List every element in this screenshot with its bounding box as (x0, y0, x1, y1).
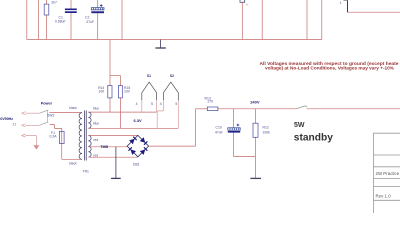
svg-text:5W: 5W (294, 122, 305, 129)
svg-text:Rev 1.0: Rev 1.0 (376, 193, 392, 198)
svg-text:47uF: 47uF (86, 20, 94, 24)
svg-text:voltage) at No-Load Conditions: voltage) at No-Load Conditions, Voltages… (265, 66, 394, 71)
svg-text:SW2: SW2 (47, 114, 54, 118)
svg-text:100k: 100k (263, 131, 271, 135)
svg-text:standby: standby (294, 133, 333, 144)
svg-text:Power: Power (41, 102, 53, 106)
svg-text:blue: blue (93, 107, 99, 111)
svg-text:4: 4 (136, 102, 138, 106)
svg-text:5: 5 (175, 102, 177, 106)
svg-text:5: 5 (151, 102, 153, 106)
svg-text:TR1: TR1 (83, 170, 90, 174)
svg-text:0.2A: 0.2A (50, 134, 58, 138)
svg-text:4: 4 (160, 102, 162, 106)
svg-text:100: 100 (99, 89, 105, 93)
svg-text:47uF: 47uF (215, 131, 223, 135)
svg-text:S2: S2 (170, 74, 174, 78)
svg-text:red: red (94, 154, 99, 158)
svg-text:C10: C10 (216, 125, 222, 129)
svg-text:black: black (69, 162, 77, 166)
svg-text:DB1: DB1 (133, 163, 140, 167)
svg-text:J1: J1 (12, 123, 16, 127)
svg-text:1: 1 (340, 1, 342, 5)
svg-text:S1: S1 (147, 74, 151, 78)
svg-text:230V50Hz: 230V50Hz (0, 117, 13, 121)
svg-text:black: black (69, 106, 77, 110)
svg-text:100: 100 (124, 89, 130, 93)
svg-text:270: 270 (208, 100, 214, 104)
svg-text:R12: R12 (263, 125, 269, 129)
svg-text:240V: 240V (250, 100, 260, 105)
svg-text:blue: blue (93, 121, 99, 125)
svg-text:TMB: TMB (100, 145, 108, 149)
svg-text:2k7: 2k7 (51, 1, 57, 5)
svg-text:red: red (94, 138, 99, 142)
svg-text:2W Practice Amp: 2W Practice Amp (376, 171, 400, 176)
svg-text:C2: C2 (85, 15, 89, 19)
svg-text:1k: 1k (245, 3, 249, 7)
svg-text:6.3V: 6.3V (134, 118, 143, 123)
svg-text:0.68uF: 0.68uF (55, 20, 66, 24)
